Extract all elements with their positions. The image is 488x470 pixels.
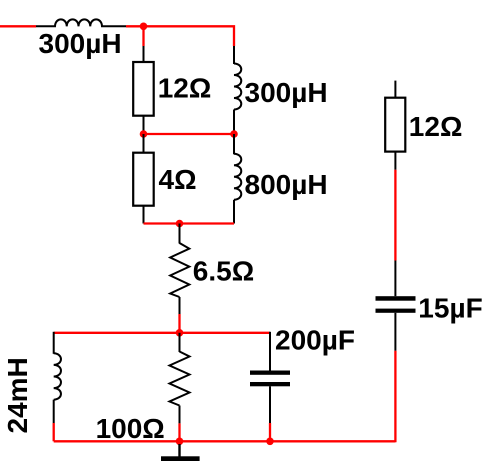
svg-text:4Ω: 4Ω — [159, 164, 197, 195]
wire row3 red — [144, 222, 235, 224]
svg-text:15µF: 15µF — [418, 293, 482, 324]
svg-text:300µH: 300µH — [245, 77, 328, 108]
svg-text:100Ω: 100Ω — [96, 413, 165, 444]
wire top red to corner — [126, 26, 234, 46]
wire terminal stub right branch — [394, 81, 396, 99]
wire row4 red — [54, 332, 270, 334]
wire input left red — [0, 25, 36, 27]
inductor L1 300uH horizontal — [36, 19, 126, 26]
wire black stub below R4 — [179, 406, 181, 424]
inductor L3 800uH vertical — [234, 154, 241, 200]
wire black stub below R3 — [179, 297, 181, 314]
node E junction dot — [176, 329, 184, 337]
wire black stub above C1 — [269, 332, 271, 371]
ground bar — [161, 456, 200, 461]
wire black stub below L2 — [233, 110, 235, 135]
wire red stub below C1 — [269, 423, 271, 441]
wire red stub R4 to bottom — [178, 423, 180, 441]
node B junction dot — [140, 130, 148, 138]
capacitor C2 15uF bottom plate — [376, 309, 416, 313]
wire black stub above L3 — [233, 134, 235, 154]
wire black stub below L3 — [233, 200, 235, 224]
wire red stub L4 to bottom — [53, 423, 55, 441]
capacitor C2 15uF top plate — [376, 296, 416, 301]
svg-text:12Ω: 12Ω — [409, 111, 463, 142]
resistor R1 12ohm — [133, 62, 154, 116]
svg-text:12Ω: 12Ω — [158, 72, 212, 103]
wire black stub above L4 — [53, 332, 55, 354]
svg-text:6.5Ω: 6.5Ω — [193, 255, 254, 286]
node G junction dot — [266, 438, 274, 446]
node C junction dot — [230, 130, 238, 138]
wire black stub above L2 — [233, 46, 235, 64]
inductor L4 24mH vertical — [54, 353, 61, 399]
capacitor C1 200uF bottom plate — [250, 382, 290, 386]
inductor L2 300uH vertical — [234, 64, 241, 110]
wire black stub above C2 — [394, 261, 396, 297]
node D junction dot — [176, 220, 184, 228]
wire black stub above R3 — [179, 224, 181, 244]
wire ground stub black — [178, 444, 180, 457]
wire red right branch to bottom — [394, 351, 396, 443]
wire black stub below R5 — [394, 152, 396, 170]
wire red middle right branch — [394, 170, 396, 261]
wire red stub below node A — [142, 26, 144, 46]
resistor R3 6.5ohm zigzag — [170, 243, 189, 297]
svg-text:200µF: 200µF — [275, 325, 355, 356]
svg-text:24mH: 24mH — [2, 357, 33, 433]
wire black stub below R2 — [143, 206, 145, 224]
wire black stub below L4 — [53, 400, 55, 423]
node F junction dot — [176, 438, 184, 446]
wire black stub below R1 — [143, 116, 145, 134]
wire red stub to row4 — [178, 314, 180, 333]
wire black stub to R1 top — [143, 46, 145, 63]
wire black stub below C2 — [394, 313, 396, 351]
wire black stub below C1 — [269, 386, 271, 423]
svg-text:800µH: 800µH — [245, 169, 328, 200]
wire bottom red — [54, 440, 396, 442]
resistor R5 12ohm right — [385, 98, 405, 152]
wire black stub above R4 — [179, 333, 181, 352]
resistor R4 100ohm zigzag — [170, 352, 190, 406]
node A junction dot — [140, 23, 148, 31]
wire black stub to R2 top — [143, 134, 145, 154]
svg-text:300µH: 300µH — [39, 28, 122, 59]
capacitor C1 200uF top plate — [250, 371, 290, 375]
resistor R2 4ohm — [133, 153, 154, 206]
wire row2 red — [144, 133, 235, 135]
